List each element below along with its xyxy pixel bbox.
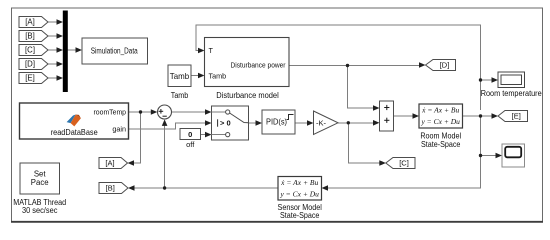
svg-text:-K-: -K- xyxy=(316,119,327,128)
svg-text:Room temperature: Room temperature xyxy=(481,89,542,98)
svg-text:> 0: > 0 xyxy=(220,119,231,128)
svg-text:[D]: [D] xyxy=(25,60,35,69)
svg-text:readDataBase: readDataBase xyxy=(51,128,98,137)
svg-text:[B]: [B] xyxy=(106,184,115,193)
svg-text:off: off xyxy=(186,140,195,149)
svg-text:[D]: [D] xyxy=(440,61,450,70)
svg-text:[E]: [E] xyxy=(25,74,35,83)
svg-text:ẋ = Ax + Bu: ẋ = Ax + Bu xyxy=(421,106,459,115)
svg-text:[C]: [C] xyxy=(399,159,409,168)
svg-text:T: T xyxy=(209,46,214,55)
svg-text:Simulation_Data: Simulation_Data xyxy=(91,47,139,56)
svg-text:ẋ = Ax + Bu: ẋ = Ax + Bu xyxy=(280,178,318,187)
svg-text:gain: gain xyxy=(112,125,126,134)
svg-text:y = Cx + Du: y = Cx + Du xyxy=(279,190,319,199)
svg-text:roomTemp: roomTemp xyxy=(94,108,127,117)
svg-text:Pace: Pace xyxy=(31,178,49,187)
svg-text:y = Cx + Du: y = Cx + Du xyxy=(420,117,460,126)
svg-text:PID(s): PID(s) xyxy=(266,118,287,127)
svg-text:Disturbance model: Disturbance model xyxy=(216,91,279,100)
svg-text:State-Space: State-Space xyxy=(280,211,320,220)
svg-text:Tamb: Tamb xyxy=(170,71,190,81)
svg-text:Tamb: Tamb xyxy=(171,91,189,100)
svg-text:[C]: [C] xyxy=(25,46,35,55)
svg-text:[E]: [E] xyxy=(512,112,521,121)
svg-text:30 sec/sec: 30 sec/sec xyxy=(22,206,58,215)
svg-text:0: 0 xyxy=(188,130,192,139)
svg-text:Tamb: Tamb xyxy=(209,72,227,81)
svg-text:[A]: [A] xyxy=(105,159,114,168)
svg-text:[A]: [A] xyxy=(25,18,35,27)
svg-text:State-Space: State-Space xyxy=(421,140,461,149)
svg-text:[B]: [B] xyxy=(25,32,35,41)
svg-text:Disturbance power: Disturbance power xyxy=(231,60,287,69)
